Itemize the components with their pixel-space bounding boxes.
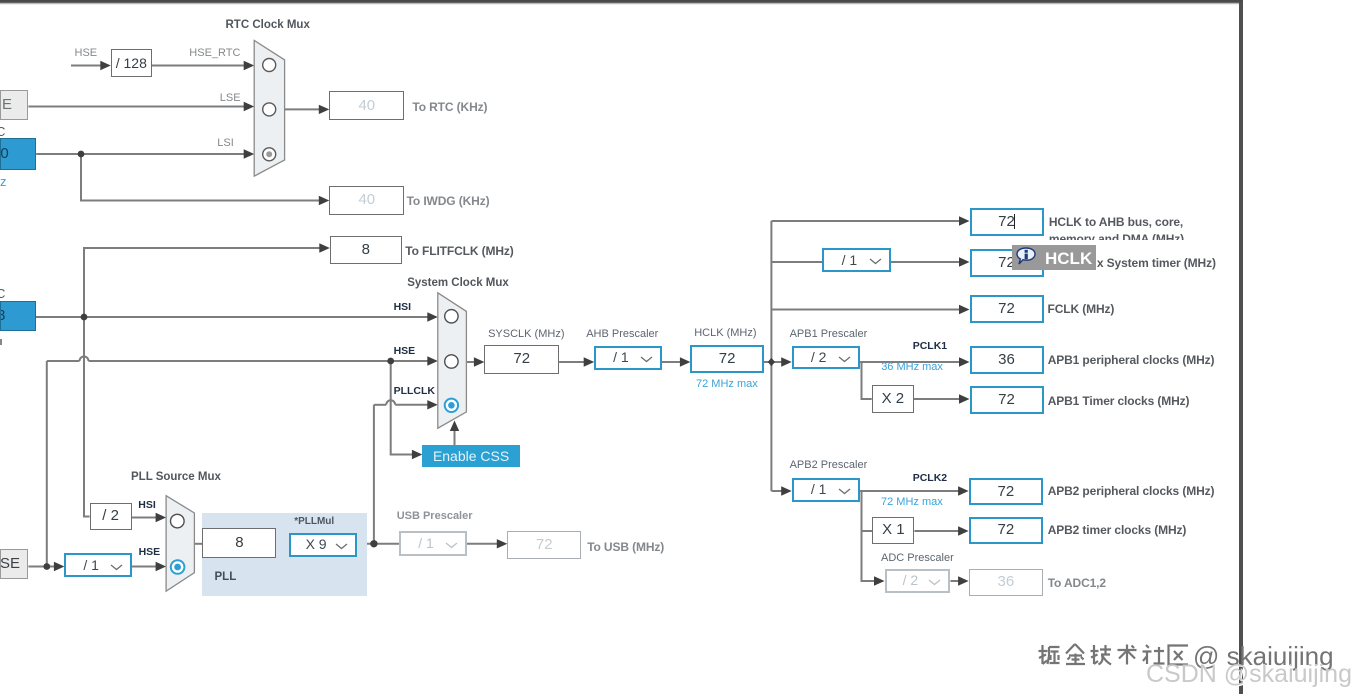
label APB2 timer clocks (MHz) — [1048, 524, 1187, 536]
junction dot HSI — [81, 314, 88, 321]
mux System Clock Mux body — [438, 293, 467, 428]
value box SYSCLK 72 — [484, 345, 559, 373]
divider /128 box — [111, 49, 152, 77]
dropdown PLLMul X9 — [289, 533, 357, 557]
label LSI — [217, 138, 234, 149]
arrowhead LSE into RTC mux — [244, 102, 255, 111]
label PCLK2 — [913, 473, 947, 484]
wire HSE continued to mux — [89, 360, 429, 362]
fragment label C (left edge, HSI row) — [0, 286, 5, 301]
tooltip HCLK with info icon — [1012, 245, 1096, 270]
wire RTC mux output to To-RTC box — [285, 108, 320, 110]
wire APB1 prescaler output to APB1 peripheral box — [860, 361, 960, 363]
arrowhead into ADC prescaler — [874, 576, 885, 585]
wire X2 output to APB1 timer box — [914, 398, 960, 400]
mux RTC Clock Mux body — [254, 40, 284, 176]
arrowhead into APB1 prescaler — [781, 357, 792, 366]
label APB2 peripheral clocks (MHz) — [1048, 485, 1215, 497]
arrowhead /2 into PLL source mux — [156, 513, 167, 522]
wire APB2 branch to X1 — [862, 530, 873, 532]
fragment label C (left edge, LSE row) — [0, 124, 5, 139]
wire Cortex /1 prescaler to System timer box — [891, 261, 960, 263]
multiplier box X2 — [872, 385, 914, 413]
label APB1 Prescaler — [790, 329, 868, 340]
text caret in focused box — [1014, 214, 1015, 229]
button Enable CSS — [422, 445, 519, 468]
wire HSE riser from HSE osc junction — [46, 361, 48, 567]
value box To ADC 36 disabled — [969, 569, 1044, 596]
arrowhead into System timer box — [959, 257, 970, 266]
arrowhead into SYSCLK box — [474, 357, 485, 366]
label PCLK1 — [913, 341, 947, 352]
label x System timer (MHz) — [1097, 257, 1216, 269]
wire PLL mux output into PLL block — [194, 543, 203, 545]
fragment mark below HSI box — [0, 339, 2, 345]
arrowhead into To-RTC box — [319, 105, 330, 114]
source box LSI RC (clipped, blue) — [0, 138, 36, 169]
arrowhead into FLITFCLK box — [319, 243, 330, 252]
label HSI (PLL mux) — [138, 500, 156, 511]
radio HSI (PLL mux, unselected) — [171, 514, 185, 528]
radio HSE_RTC (RTC mux, unselected) — [263, 59, 276, 72]
value box APB2 peripheral 72 — [969, 478, 1044, 505]
wire HSE stub into /128 divider — [71, 65, 102, 67]
wire LSI branch down to IWDG — [81, 154, 320, 201]
top window border bar — [0, 0, 1243, 5]
arrowhead into APB2 timer box — [958, 526, 969, 535]
label LSE — [220, 93, 241, 104]
arrowhead into APB1 peripheral box — [959, 357, 970, 366]
divider box /2 (HSI to PLL) — [90, 503, 132, 530]
label FCLK (MHz) — [1048, 303, 1115, 315]
wire USB prescaler to To-USB box — [467, 543, 498, 545]
wire HSE source to /1 prescaler — [28, 566, 56, 568]
label HCLK to AHB bus, core, memory and DMA (clipped 2nd line) — [1049, 214, 1184, 240]
wire trunk branch to HCLK-to-AHB box — [771, 220, 960, 222]
label To FLITFCLK (MHz) — [405, 245, 513, 257]
wire LSE from LSE osc to RTC mux — [28, 106, 245, 108]
value box To RTC 40 — [329, 91, 404, 120]
label USB Prescaler — [397, 511, 473, 522]
wire /2 divider to PLL source mux — [132, 517, 157, 519]
wire CSS drop from HSE junction to Enable CSS — [391, 361, 413, 455]
label APB1 peripheral clocks (MHz) — [1048, 354, 1215, 366]
wire SYSCLK to AHB prescaler — [559, 361, 585, 363]
arrowhead HSE into System Clock Mux — [427, 356, 438, 365]
wire trunk branch to FCLK box — [771, 309, 960, 311]
mux PLL Source Mux body — [166, 496, 194, 592]
arrowhead into FCLK box — [959, 305, 970, 314]
wire trunk bottom to APB2 prescaler — [771, 490, 782, 492]
value box To USB 72 disabled — [507, 531, 581, 560]
dropdown APB1 prescaler /2 — [792, 346, 860, 369]
label HSE (system mux) — [394, 346, 416, 357]
multiplier box X1 — [872, 517, 914, 544]
radio LSI (RTC mux, selected gray) — [263, 148, 276, 161]
arrowhead HSE_RTC into RTC mux — [244, 61, 255, 70]
wire PLLCLK to System Clock Mux (with hop over CSS drop) — [374, 404, 386, 406]
radio LSE (RTC mux, unselected) — [263, 103, 276, 116]
wire APB2 branch down to X1 and ADC — [862, 491, 876, 581]
arrowhead into APB1 timer box — [959, 394, 970, 403]
wire Enable CSS up into System Clock Mux — [454, 429, 456, 445]
wire X1 output to APB2 timer box — [914, 530, 959, 532]
wire LSI from LSI RC to RTC mux — [36, 153, 245, 155]
wire PLLCLK continued to mux — [395, 404, 428, 406]
source box LSE osc (clipped) — [0, 90, 28, 120]
wire /1 prescaler to PLL source mux — [132, 566, 157, 568]
arrowhead LSI into RTC mux — [244, 149, 255, 158]
value box HCLK to AHB 72 (focused with caret) — [970, 208, 1044, 236]
dropdown APB2 prescaler /1 — [792, 478, 860, 502]
arrowhead into HSE /1 prescaler — [54, 562, 65, 571]
wire AHB prescaler to HCLK box — [662, 361, 681, 363]
label HSE_RTC — [189, 48, 240, 59]
PLL block background — [202, 513, 367, 596]
dropdown ADC prescaler /2 disabled — [885, 569, 951, 592]
wire trunk branch to Cortex /1 prescaler — [771, 261, 822, 263]
radio HSI (system mux, unselected) — [445, 310, 458, 323]
label ADC Prescaler — [881, 553, 954, 564]
arrowhead into AHB prescaler — [584, 357, 595, 366]
value box FCLK 72 — [970, 295, 1044, 323]
label To USB (MHz) — [587, 541, 664, 553]
right panel divider line — [1239, 2, 1243, 694]
label PLLCLK — [394, 386, 435, 397]
junction dot HSE osc — [43, 563, 50, 570]
value box HCLK 72 — [690, 345, 763, 373]
label HSE (top) — [75, 48, 98, 59]
dropdown AHB prescaler /1 — [594, 346, 661, 370]
dropdown USB prescaler /1 disabled — [399, 531, 467, 556]
fragment label z (left edge, blue) — [0, 175, 7, 188]
PLL input box 8 — [202, 528, 276, 558]
label *PLLMul — [294, 517, 334, 527]
wire ADC prescaler to ADC box — [950, 580, 959, 582]
radio HSE (system mux, unselected) — [445, 355, 458, 368]
radio HSE (PLL mux, selected blue) — [171, 560, 185, 574]
value box APB2 timer 72 — [969, 517, 1044, 544]
label 72 MHz max (HCLK) — [696, 379, 758, 390]
label SYSCLK (MHz) — [488, 329, 564, 340]
value box To FLITFCLK 8 — [330, 236, 402, 264]
wire HCLK box to APB1 prescaler through trunk junction — [764, 361, 783, 363]
label HSI (system mux) — [394, 302, 412, 313]
arrowhead into HCLK box — [680, 357, 691, 366]
source box HSE osc (clipped at left edge) — [0, 549, 28, 579]
arrowhead up from Enable CSS into mux — [450, 421, 459, 432]
wire HSE_RTC from /128 to RTC mux — [152, 65, 246, 67]
wire APB1 branch down to X2 — [862, 362, 872, 399]
label PLL — [215, 572, 237, 584]
arrowhead HSI into System Clock Mux — [427, 312, 438, 321]
arrowhead into To-IWDG box — [319, 196, 330, 205]
label PLL Source Mux — [131, 472, 221, 484]
arrowhead into /128 box — [100, 61, 111, 70]
wire PLL 8 box to X9 multiplier — [277, 543, 291, 545]
radio PLLCLK (system mux, selected blue) — [445, 399, 458, 412]
wire APB2 prescaler output to APB2 peripheral box — [860, 490, 959, 492]
arrowhead into To-ADC box — [958, 576, 969, 585]
label To ADC1,2 — [1048, 577, 1106, 589]
arrowhead PLLCLK into System Clock Mux — [427, 400, 438, 409]
wire PLLCLK riser — [373, 405, 375, 544]
label To IWDG (KHz) — [407, 195, 490, 207]
wire hop HSE over HSI vertical — [80, 357, 89, 362]
source box HSI RC (clipped, blue) — [0, 301, 36, 331]
label AHB Prescaler — [586, 329, 658, 340]
junction diamond HCLK trunk — [768, 358, 775, 366]
label HCLK (MHz) — [694, 328, 756, 339]
junction dot LSI/IWDG — [78, 151, 85, 158]
arrowhead into To-USB box — [497, 539, 508, 548]
junction dot PLL output — [370, 540, 377, 547]
label HSE (PLL mux) — [139, 547, 161, 558]
value box APB1 peripheral 36 — [970, 346, 1044, 374]
wire System Clock Mux output to SYSCLK box — [466, 361, 475, 363]
arrowhead into APB2 peripheral box — [958, 486, 969, 495]
dropdown HSE /1 predivider — [64, 553, 132, 577]
wire X9 output to USB prescaler — [357, 543, 399, 545]
watermark CSDN line — [1146, 660, 1352, 689]
value box Cortex system timer 72 — [970, 249, 1044, 277]
value box To IWDG 40 — [329, 186, 404, 215]
arrowhead into HCLK-to-AHB box — [959, 216, 970, 225]
dropdown Cortex system timer /1 — [822, 248, 890, 273]
label 72 MHz max (APB2) — [881, 497, 943, 508]
junction dot HSE near mux (CSS tap) — [387, 358, 394, 365]
wire HSI to System Clock Mux — [36, 316, 429, 318]
label 36 MHz max — [881, 362, 943, 373]
value box APB1 timer 72 — [970, 386, 1044, 414]
wire HSI down-branch to /2 divider of PLL — [84, 317, 90, 517]
label RTC Clock Mux — [226, 20, 310, 32]
wire hop PLLCLK over CSS vertical — [386, 400, 395, 405]
label APB1 Timer clocks (MHz) — [1048, 395, 1190, 407]
arrowhead into APB2 prescaler — [781, 486, 792, 495]
label System Clock Mux — [407, 278, 509, 290]
label APB2 Prescaler — [790, 460, 868, 471]
wire HSI up-branch to FLITFCLK — [84, 248, 320, 317]
label To RTC (KHz) — [412, 101, 487, 113]
wire HCLK trunk vertical — [770, 221, 772, 491]
wire HSE to System Clock Mux (with hop over HSI) — [47, 360, 80, 362]
arrowhead into Enable CSS button — [412, 450, 423, 459]
arrowhead /1 into PLL source mux — [156, 562, 167, 571]
watermark juejin line — [1038, 641, 1361, 677]
